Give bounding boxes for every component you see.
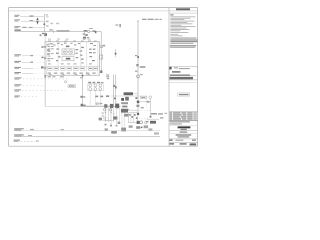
bus corner drop wire [100,32,102,73]
CT drop wire [84,32,86,36]
rule under logo [169,130,198,132]
bottom note row C [14,140,20,141]
feeder junction dark [137,113,139,115]
service riser wire [43,14,45,32]
label leader line [133,93,138,95]
right small group [149,96,152,99]
project line 2 [176,134,192,135]
utility service label row 1 [14,14,19,17]
CT cluster [83,33,85,34]
CT drop label [84,30,88,31]
bottom note row B [14,134,24,135]
rule below vicinity map [169,81,198,83]
feeder arrow [136,64,138,66]
notes header rule [169,12,198,14]
wire row 1 [20,16,44,18]
pump circles bottom [140,121,143,124]
wire tick labels [102,113,105,114]
spare label row 3 [14,25,20,28]
faint labels above MCC [48,39,51,40]
ground wire below MCC [44,75,46,106]
revision table rows [170,112,197,119]
MCC right column marks [76,49,96,62]
revision table top rule [169,111,198,113]
circles below bus [104,108,107,111]
mid small element [115,49,117,57]
rule above bottom row [169,141,198,143]
border frame outer top line [9,7,198,9]
disconnect on drop [100,55,103,59]
feeder label a [135,55,137,56]
left cable label row 3 [14,67,21,68]
MCC inner divider [86,42,88,75]
drop wires [104,107,106,122]
MCC enclosure [45,42,100,75]
panel bus line [82,105,120,107]
MCC left edge dark ticks [44,46,45,48]
border frame left line [8,8,10,147]
revisions margin marks [164,113,167,114]
bus label [14,29,20,31]
dense cluster components [104,104,107,108]
level sensor tag box [68,85,76,88]
wire row 3 [21,27,44,29]
feeder lower components [136,117,138,119]
junction tick below MCC [45,75,46,77]
level sensor circle [65,81,67,83]
breaker grid labels [88,82,91,83]
small bus with circle [96,103,98,105]
left cable label row 6 [14,84,21,85]
cluster top labels [95,96,98,98]
project line 1 [180,131,188,132]
left outside labels [41,46,43,48]
pump starter box with motors [62,49,74,55]
MCC bottom label row [48,73,96,75]
pump station enclosure outline [111,95,147,97]
breaker circle grid [88,84,104,91]
pump motor circle M1 [63,50,67,54]
bus tick [53,30,55,33]
lower junction [103,120,114,122]
general notes text block [170,17,198,49]
feeder label b [140,66,146,68]
sheet info row [169,139,172,141]
T junction cluster below bus [42,33,44,34]
right lower marks [148,128,152,130]
left cable label row 2 [14,61,21,62]
feeder junction cluster [135,97,137,99]
MCC left list rows [48,44,54,62]
MCC top scattered labels [47,43,96,49]
MCC top nubs [48,40,51,41]
approval rows [170,121,190,122]
permit set stamp [178,93,190,96]
title column divider [168,8,170,147]
wire row 2 [14,18,20,21]
bottom note row A [14,128,24,129]
bus label above right [89,28,93,29]
branch line left [121,109,138,111]
vicinity map north square [169,67,171,70]
long feeder wire [137,21,139,114]
border frame right line [197,8,199,147]
border frame bottom line [9,145,198,147]
meter circle on bus [88,30,90,32]
top right label row [142,19,147,20]
heavy rule under revision table [169,119,198,121]
bottom row texts [169,143,174,145]
drop end mark [100,70,102,73]
breaker marks near corner [93,30,96,31]
border frame inner top line [9,10,198,12]
lower control box [62,57,74,61]
riser pair [113,75,115,107]
control riser wire left [81,75,83,107]
text row below MCC [48,76,51,77]
MCC left column marks [47,48,60,61]
control box label [66,58,71,60]
conduit tag [116,24,119,25]
stack labels top right [106,74,109,75]
left cable label row 8 [14,96,20,97]
left cable label row 7 dashed [14,89,21,90]
MCC inner rails [46,42,48,75]
right text row [151,113,157,115]
feeder tap on bus corner component C [100,46,103,48]
notes subhead [170,14,173,15]
MCC internal rule [45,65,100,67]
pump station label box [124,92,133,95]
company logo CENTRAL [178,126,191,128]
bottom cluster marks [105,128,108,130]
vicinity map title [174,67,178,68]
company sub text [181,129,187,130]
bus label 3 [57,30,70,31]
feeder top tick [137,20,139,22]
MCC bottom cell row [48,67,98,70]
vicinity map road lines [172,71,180,73]
feeder meter circle [137,75,140,78]
fuse wedge on riser [43,22,45,25]
ground bus line [45,105,95,107]
MCC column dividers [57,42,59,66]
left cable label row 4 [14,72,21,73]
wire into MCC [44,32,46,42]
faint riser labels [46,14,60,27]
revision table right column divider [192,112,194,121]
main horizontal bus wire [15,31,102,33]
transfer switch box [129,113,138,123]
MCC mid marks row [48,62,92,64]
rule above sheet row [169,138,198,140]
transformer symbol triangles [36,18,38,21]
vicinity map box [169,67,198,80]
project line 3 [178,136,190,137]
general notes header [176,8,190,10]
left cable label row 1 [14,54,21,55]
bus label 2 [49,29,52,30]
pump motor circle M2 [69,50,73,54]
left cable label row 5 dashed [14,77,21,78]
